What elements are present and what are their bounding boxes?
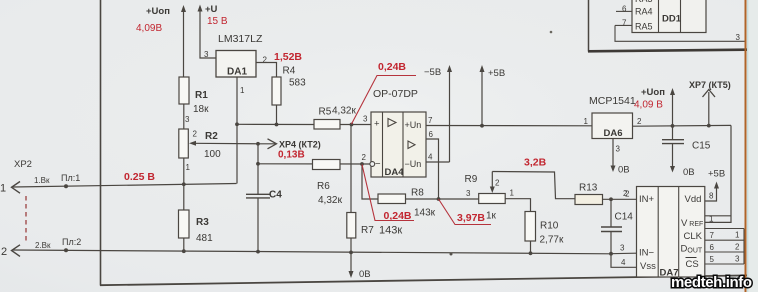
svg-text:XP7 (КТ5): XP7 (КТ5): [689, 80, 731, 90]
svg-text:4: 4: [621, 258, 626, 267]
resistor R1: [179, 77, 209, 129]
svg-text:Пл:1: Пл:1: [61, 173, 80, 183]
svg-text:3: 3: [466, 189, 471, 198]
svg-text:481: 481: [196, 233, 213, 244]
wire DA6 pin2 rail: [633, 124, 732, 127]
page edge scan lines: [746, 0, 758, 292]
svg-text:R5: R5: [319, 107, 332, 118]
svg-text:R13: R13: [579, 183, 598, 194]
svg-text:IN−: IN−: [639, 248, 655, 259]
svg-text:R1: R1: [195, 90, 208, 101]
svg-text:18к: 18к: [193, 104, 209, 115]
svg-text:Vdd: Vdd: [685, 194, 702, 205]
svg-text:RA4: RA4: [635, 7, 653, 17]
svg-text:2,77к: 2,77к: [540, 235, 564, 246]
svg-text:CS: CS: [686, 259, 699, 270]
svg-text:5: 5: [710, 255, 715, 264]
svg-text:0В: 0В: [359, 269, 371, 280]
svg-text:+Un: +Un: [405, 120, 422, 130]
svg-text:R9: R9: [465, 174, 478, 185]
svg-text:4: 4: [428, 153, 433, 162]
svg-text:C15: C15: [692, 141, 711, 152]
wire DA4 pin7 output rail to DA6: [426, 116, 592, 126]
ground 0V below R7: [349, 252, 371, 280]
svg-text:3,97В: 3,97В: [457, 212, 485, 224]
svg-text:143к: 143к: [414, 208, 436, 219]
resistor R13: [575, 183, 637, 205]
regulator DA1 LM317LZ: [204, 33, 268, 78]
node C4 bottom: [256, 250, 260, 254]
wire DA1 pin1 vertical: [237, 77, 245, 184]
svg-text:1,52В: 1,52В: [274, 51, 302, 63]
svg-text:1: 1: [186, 163, 191, 172]
connector XP4 arrow: [258, 139, 321, 161]
svg-text:6: 6: [710, 243, 715, 252]
wire DA6 pin3 to 0V: [611, 139, 630, 176]
svg-text:0В: 0В: [618, 165, 630, 176]
svg-text:3,2В: 3,2В: [524, 157, 547, 169]
ADC DA7: [625, 187, 714, 279]
power +Uon right arrow: [634, 87, 675, 128]
svg-text:DD1: DD1: [662, 14, 682, 25]
svg-text:+: +: [374, 119, 380, 130]
svg-text:0.25 В: 0.25 В: [124, 171, 155, 183]
wire R2 wiper to XP4 node: [194, 142, 258, 145]
svg-text:C4: C4: [269, 190, 282, 201]
svg-text:C14: C14: [615, 212, 634, 223]
svg-text:1: 1: [584, 117, 589, 126]
svg-text:R10: R10: [540, 221, 559, 232]
svg-text:+Uоп: +Uоп: [641, 87, 665, 98]
svg-text:3: 3: [736, 33, 741, 42]
svg-text:1к: 1к: [486, 211, 497, 222]
svg-text:2: 2: [1, 246, 7, 258]
svg-text:2: 2: [735, 243, 740, 252]
capacitor C14: [601, 199, 633, 255]
svg-text:1: 1: [240, 86, 245, 95]
svg-text:7: 7: [622, 19, 627, 28]
pin 6 stub RA4: [616, 5, 632, 14]
svg-text:R4: R4: [283, 66, 296, 77]
svg-text:4,09 В: 4,09 В: [634, 100, 663, 111]
resistor R8: [362, 164, 479, 219]
wire VREF feed down right: [705, 125, 731, 222]
svg-text:RA5: RA5: [635, 22, 653, 32]
top-right block DD1 outer box: [588, 0, 758, 52]
callout 0,24V upper: [352, 61, 417, 124]
callout 0,24V lower: [362, 165, 414, 223]
svg-text:3: 3: [616, 145, 621, 154]
resistor R3: [179, 210, 214, 253]
svg-text:0В: 0В: [683, 167, 695, 178]
frame left border: [100, 0, 102, 286]
svg-text:IN+: IN+: [639, 194, 655, 205]
svg-text:R8: R8: [411, 188, 424, 199]
svg-text:100: 100: [204, 149, 221, 160]
IC DD1: [632, 0, 706, 33]
capacitor C4: [246, 190, 282, 252]
svg-text:8: 8: [709, 192, 714, 201]
potentiometer R9: [465, 172, 515, 222]
wire rail to IN- and Vss: [611, 244, 637, 268]
resistor R7: [347, 125, 403, 255]
svg-text:2: 2: [625, 190, 630, 199]
capacitor C15: [662, 126, 711, 152]
XP2 connector pin 2: [1, 237, 81, 258]
svg-text:6: 6: [429, 130, 434, 139]
svg-text:2: 2: [495, 179, 500, 188]
supply +5V at DA7: [705, 169, 725, 202]
supply +5V arrow: [480, 65, 506, 128]
svg-text:Vss: Vss: [640, 261, 656, 272]
power +Uon left arrow: [136, 5, 186, 77]
svg-text:1: 1: [709, 215, 714, 224]
resistor R5: [314, 106, 371, 130]
node R6 tap: [256, 162, 260, 166]
pin ladder CLK/DOUT/CS: [705, 229, 744, 265]
svg-text:3: 3: [185, 115, 190, 124]
resistor R10: [525, 212, 564, 256]
svg-text:2: 2: [193, 130, 198, 139]
ground rail (Pl:2 / 0V): [13, 250, 612, 254]
svg-text:3: 3: [735, 255, 740, 264]
svg-text:XP4 (КТ2): XP4 (КТ2): [279, 140, 321, 150]
wire R9 pin1 down to R10: [505, 199, 530, 212]
svg-text:2.Вк: 2.Вк: [35, 241, 51, 250]
dashed connector body: [25, 196, 27, 244]
svg-text:R7: R7: [361, 225, 374, 236]
wire R6 node to DA4 pin2: [258, 153, 375, 166]
main adj wire y=124.5: [235, 122, 314, 126]
svg-text:+5В: +5В: [708, 169, 725, 180]
svg-text:2: 2: [263, 56, 268, 65]
power +U arrow: [198, 4, 228, 58]
svg-text:LM317LZ: LM317LZ: [218, 33, 263, 45]
wire XP4 node down through C4: [257, 144, 259, 194]
wire DA4 pin6 down to R8 node: [426, 130, 440, 201]
svg-text:3: 3: [204, 50, 209, 59]
node R2-R3 on pin1 wire: [182, 182, 186, 186]
svg-text:2: 2: [362, 153, 367, 162]
svg-text:MCP1541: MCP1541: [589, 95, 636, 107]
svg-text:−: −: [375, 159, 381, 170]
ground 0V below C15: [670, 144, 695, 178]
svg-text:7: 7: [710, 231, 715, 240]
svg-text:XP2: XP2: [14, 159, 32, 170]
svg-text:0,13В: 0,13В: [278, 150, 305, 161]
op-amp U1 DA4 OP-07DP: [371, 88, 426, 178]
svg-text:0,24В: 0,24В: [378, 61, 406, 73]
svg-text:4,32к: 4,32к: [318, 194, 342, 206]
supply -5V arrow: [424, 65, 452, 162]
svg-text:143к: 143к: [379, 225, 402, 237]
reference MCP1541 DA6: [584, 95, 643, 139]
svg-text:DA6: DA6: [604, 128, 623, 139]
wire R9 wiper to R13 (3,2V node): [492, 172, 575, 199]
callout 3,97V: [439, 199, 492, 225]
svg-text:DA1: DA1: [227, 67, 247, 78]
svg-text:4,09В: 4,09В: [136, 23, 162, 34]
svg-text:15 В: 15 В: [207, 16, 228, 27]
svg-text:CLK: CLK: [684, 231, 703, 242]
svg-text:1: 1: [510, 189, 515, 198]
resistor R4: [272, 66, 306, 126]
svg-text:RA3: RA3: [635, 0, 653, 4]
svg-text:DA4: DA4: [385, 167, 405, 178]
svg-text:1: 1: [735, 231, 740, 240]
svg-text:3: 3: [620, 244, 625, 253]
svg-text:+U: +U: [205, 4, 218, 15]
speck: [550, 31, 553, 34]
svg-text:R3: R3: [196, 217, 209, 228]
speck: [450, 253, 453, 256]
svg-text:−5В: −5В: [424, 67, 441, 78]
svg-text:Пл:2: Пл:2: [62, 237, 81, 247]
svg-text:−Un: −Un: [405, 159, 422, 169]
svg-text:OP-07DP: OP-07DP: [373, 88, 418, 100]
svg-text:+5В: +5В: [488, 68, 505, 79]
node wiper: [256, 142, 260, 146]
svg-text:R2: R2: [205, 131, 218, 142]
svg-text:583: 583: [289, 78, 306, 89]
svg-text:2: 2: [637, 117, 642, 126]
svg-text:4,32к: 4,32к: [332, 106, 356, 117]
connector XP7 arrow: [689, 80, 731, 128]
svg-text:1: 1: [0, 183, 6, 195]
resistor R6: [313, 160, 343, 207]
svg-text:medteh.info: medteh.info: [671, 274, 752, 291]
svg-text:R6: R6: [317, 181, 330, 192]
wire DA1 pin2 to R4: [256, 63, 277, 78]
svg-text:+Uоп: +Uоп: [146, 6, 170, 17]
XP2 connector pin 1: [0, 159, 237, 195]
potentiometer R2: [179, 129, 221, 210]
svg-text:7: 7: [428, 116, 433, 125]
svg-text:6: 6: [622, 5, 627, 14]
frame bottom border: [100, 275, 748, 285]
svg-text:3: 3: [363, 115, 368, 124]
svg-text:1.Вк: 1.Вк: [34, 176, 50, 185]
pin 7 stub RA5 and wire to edge: [615, 19, 745, 43]
